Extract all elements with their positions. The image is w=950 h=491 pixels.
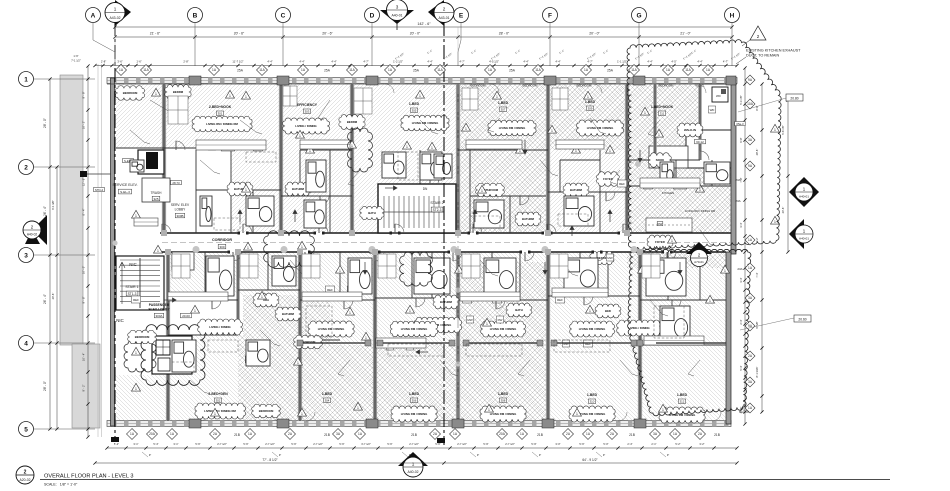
keynote triangles: [132, 88, 780, 416]
svg-text:A40-01: A40-01: [392, 14, 403, 18]
svg-text:21B: 21B: [234, 433, 240, 437]
svg-text:9'-5/8": 9'-5/8": [755, 321, 759, 328]
svg-text:4'-4": 4'-4": [647, 60, 652, 64]
svg-text:BEDROOM: BEDROOM: [123, 91, 138, 95]
detail marker 2/A70-01: [686, 242, 712, 267]
bedroom label 311: [471, 84, 706, 88]
svg-text:1: 1: [299, 134, 301, 138]
svg-text:REF: REF: [619, 182, 625, 186]
svg-text:142' - 6": 142' - 6": [417, 22, 431, 26]
svg-text:BATHRM: BATHRM: [282, 312, 295, 316]
svg-text:1: 1: [575, 149, 577, 153]
left leader small marks: [60, 167, 95, 343]
svg-text:LIVING RM / DINING: LIVING RM / DINING: [499, 126, 526, 130]
svg-text:25A: 25A: [607, 69, 614, 73]
room label 1-BED+NOOK 311: [651, 105, 674, 116]
svg-text:2: 2: [24, 470, 27, 476]
svg-text:3'-1": 3'-1": [173, 442, 178, 446]
svg-text:1: 1: [488, 408, 490, 412]
svg-text:A43-01: A43-01: [439, 16, 450, 20]
svg-text:10' - 0": 10' - 0": [82, 266, 86, 274]
svg-text:A20-02: A20-02: [20, 478, 31, 482]
svg-text:05a-3: 05a-3: [736, 122, 744, 126]
grid bubble E: [454, 8, 469, 67]
svg-text:11A: 11A: [535, 68, 541, 72]
svg-text:LIVING / DINING: LIVING / DINING: [295, 124, 316, 128]
svg-text:2'-7 1/2": 2'-7 1/2": [217, 442, 227, 446]
svg-text:300: 300: [219, 245, 224, 249]
svg-text:1'-1 1/2": 1'-1 1/2": [617, 60, 627, 64]
grid bubble G: [632, 8, 647, 67]
svg-text:ST1-3: ST1-3: [128, 292, 137, 296]
svg-text:H: H: [730, 13, 735, 20]
svg-text:60.12: 60.12: [696, 140, 704, 144]
drawing title text: [40, 474, 890, 487]
svg-text:BEDROOM: BEDROOM: [135, 335, 150, 339]
svg-text:1-BED+NOOK: 1-BED+NOOK: [651, 105, 674, 109]
svg-text:1: 1: [699, 188, 701, 192]
elec room: [172, 252, 194, 270]
cloud around passenger elevators: [141, 325, 205, 386]
svg-text:BEDRM: BEDRM: [347, 120, 358, 124]
svg-text:1: 1: [229, 94, 231, 98]
bath fixtures: [130, 152, 730, 372]
svg-text:A40-01: A40-01: [799, 237, 809, 241]
svg-text:LIVING / DINING: LIVING / DINING: [209, 325, 230, 329]
svg-text:REF: REF: [133, 298, 139, 302]
svg-text:1-BED: 1-BED: [322, 392, 333, 396]
svg-text:D: D: [370, 13, 375, 20]
svg-text:20.80: 20.80: [790, 96, 798, 100]
svg-text:A40-01: A40-01: [799, 195, 809, 199]
window door arcs at top wall: [176, 84, 721, 421]
svg-text:7'-4": 7'-4": [755, 272, 759, 277]
svg-text:2: 2: [24, 165, 28, 172]
svg-text:28' - 0": 28' - 0": [499, 32, 510, 36]
svg-text:LIVING RM / DINING: LIVING RM / DINING: [490, 327, 517, 331]
corridor label: [212, 238, 232, 249]
svg-text:W.D CL: W.D CL: [695, 84, 705, 88]
elevation tag 60.12: [695, 122, 746, 144]
svg-text:1: 1: [297, 361, 299, 365]
svg-text:21' - 0": 21' - 0": [680, 32, 691, 36]
room label EFFICIENCY 303: [297, 103, 318, 114]
svg-text:3'-6": 3'-6": [117, 60, 122, 64]
svg-text:10' - 4": 10' - 4": [82, 353, 86, 361]
svg-text:BEDROOM: BEDROOM: [259, 409, 274, 413]
svg-text:1: 1: [519, 149, 521, 153]
svg-text:9' - 2": 9' - 2": [82, 385, 86, 392]
svg-text:300A: 300A: [155, 314, 162, 318]
overall dimension 142-6: [113, 22, 733, 29]
svg-text:5: 5: [24, 427, 28, 434]
grid bubble C: [276, 8, 291, 67]
svg-text:1: 1: [24, 77, 28, 84]
svg-text:BATHRM: BATHRM: [522, 217, 535, 221]
svg-text:BEDROOM: BEDROOM: [659, 84, 675, 88]
svg-text:1: 1: [247, 246, 249, 250]
elev lobby boxes: [94, 158, 182, 192]
svg-text:5'-6": 5'-6": [243, 442, 248, 446]
section marker 3/A40-01 top: [380, 0, 414, 30]
svg-text:1: 1: [551, 129, 553, 133]
svg-text:26' - 4": 26' - 4": [43, 206, 47, 216]
svg-text:4'-4": 4'-4": [267, 60, 272, 64]
svg-text:MW: MW: [467, 318, 472, 322]
svg-text:A40-02: A40-02: [408, 470, 419, 474]
section line 1/A43-02 (x=115): [111, 22, 119, 442]
svg-text:1: 1: [301, 412, 303, 416]
svg-text:28' - 0": 28' - 0": [43, 381, 47, 391]
svg-text:2-BED+NOOK: 2-BED+NOOK: [209, 105, 232, 109]
svg-text:DW: DW: [498, 318, 503, 322]
grid bubble 2: [19, 160, 96, 175]
bottom overall dimension line: [93, 458, 738, 465]
door swing arcs: [162, 141, 709, 345]
svg-text:9' - 9": 9' - 9": [82, 92, 86, 99]
grid bubble 4: [19, 336, 96, 351]
svg-text:23A: 23A: [735, 178, 740, 182]
svg-text:4'-4": 4'-4": [427, 60, 432, 64]
svg-text:LIVING / DINING: LIVING / DINING: [628, 326, 649, 330]
svg-text:1: 1: [309, 149, 311, 153]
svg-text:3'-0": 3'-0": [555, 442, 560, 446]
svg-text:3'-4": 3'-4": [739, 222, 743, 227]
room label 1-BED 304: [322, 392, 333, 403]
svg-text:3'-1": 3'-1": [133, 442, 138, 446]
svg-text:2'-8": 2'-8": [101, 60, 106, 64]
svg-text:2'-4": 2'-4": [627, 442, 632, 446]
right dimension lines: [739, 66, 790, 425]
svg-text:REF: REF: [327, 288, 333, 292]
svg-text:1: 1: [194, 309, 196, 313]
svg-text:9": 9": [539, 453, 541, 457]
svg-text:BATHRM: BATHRM: [570, 188, 583, 192]
svg-text:CORRIDOR: CORRIDOR: [212, 238, 232, 242]
svg-text:LIVING RM / DINING: LIVING RM / DINING: [587, 126, 614, 130]
svg-text:5'-6": 5'-6": [579, 442, 584, 446]
kitchen label 311: [662, 191, 716, 213]
svg-text:20' - 0": 20' - 0": [410, 32, 421, 36]
svg-text:64' - 9 1/2": 64' - 9 1/2": [582, 458, 597, 462]
revision delta 2: [742, 26, 766, 46]
svg-text:9": 9": [279, 453, 281, 457]
svg-text:LIVING RM / DINING RM: LIVING RM / DINING RM: [206, 122, 238, 126]
svg-text:1: 1: [135, 351, 137, 355]
svg-text:1: 1: [671, 239, 673, 243]
svg-text:NOOK: NOOK: [656, 158, 664, 162]
svg-text:BEDROOM: BEDROOM: [471, 84, 487, 88]
unit 311 bath/closet white rooms: [649, 84, 733, 168]
svg-text:1-BED: 1-BED: [409, 102, 420, 106]
svg-text:4: 4: [24, 341, 28, 348]
svg-text:1-BED: 1-BED: [587, 393, 598, 397]
svg-text:26' - 4": 26' - 4": [43, 294, 47, 304]
svg-text:21B: 21B: [537, 433, 543, 437]
bottom detail dimension string: [105, 442, 738, 457]
svg-text:DW: DW: [658, 222, 663, 226]
svg-text:325: 325: [153, 197, 158, 201]
demising walls upper units: [164, 84, 700, 233]
svg-text:2: 2: [443, 7, 446, 12]
grid bubble B: [188, 8, 203, 67]
svg-text:BED: BED: [605, 309, 611, 313]
svg-text:2'-7 1/2": 2'-7 1/2": [457, 442, 467, 446]
svg-text:ELEV LOBBY: ELEV LOBBY: [148, 308, 170, 312]
svg-text:25A: 25A: [413, 69, 420, 73]
svg-text:20'-6": 20'-6": [781, 207, 785, 214]
svg-text:28' - 0": 28' - 0": [43, 118, 47, 128]
grid dimension line top: [113, 27, 733, 66]
svg-text:11A: 11A: [143, 68, 149, 72]
svg-text:1: 1: [774, 220, 776, 224]
svg-text:1: 1: [419, 94, 421, 98]
svg-text:4'-2": 4'-2": [755, 237, 759, 242]
svg-text:5'-6": 5'-6": [195, 442, 200, 446]
svg-text:LIVING RM / DINING: LIVING RM / DINING: [401, 412, 428, 416]
svg-text:1: 1: [114, 7, 117, 12]
svg-text:21B: 21B: [411, 433, 417, 437]
svg-text:1-BED: 1-BED: [585, 100, 596, 104]
svg-text:4'-7": 4'-7": [459, 60, 464, 64]
svg-text:BATH: BATH: [515, 308, 523, 312]
svg-text:C: C: [281, 13, 286, 20]
big revision cloud (lower right): [628, 249, 751, 415]
section marker 1/A40-01 right lower: [789, 219, 813, 249]
svg-text:BATHRM: BATHRM: [292, 187, 305, 191]
svg-text:2'-4": 2'-4": [739, 319, 743, 324]
svg-text:9": 9": [477, 453, 479, 457]
section marker 2/A40-02 left: [23, 215, 47, 245]
svg-text:BATH: BATH: [368, 211, 376, 215]
svg-text:5'-6": 5'-6": [435, 442, 440, 446]
svg-text:1'-6": 1'-6": [136, 60, 141, 64]
svg-text:4'-10": 4'-10": [739, 407, 743, 414]
svg-text:EXISTING KITCHEN EXHAUST: EXISTING KITCHEN EXHAUST: [746, 49, 801, 53]
svg-text:LIVING RM / DINING: LIVING RM / DINING: [318, 327, 345, 331]
stair 2 white room: [378, 184, 456, 233]
trash room: [142, 178, 170, 202]
svg-text:1: 1: [724, 269, 726, 273]
annotation leaders and misc linework: [130, 86, 716, 394]
flow arrows: [164, 140, 682, 354]
stair 1 treads: [116, 256, 164, 310]
svg-text:5'-9": 5'-9": [483, 442, 488, 446]
grid bubble 1: [19, 72, 96, 87]
svg-text:5'-6": 5'-6": [339, 442, 344, 446]
svg-text:LIVING RM / DINING: LIVING RM / DINING: [412, 121, 439, 125]
corridor 300 (white): [160, 233, 733, 252]
svg-text:3'-4": 3'-4": [739, 277, 743, 282]
svg-text:20.00: 20.00: [182, 314, 190, 318]
svg-text:DN: DN: [423, 187, 428, 191]
svg-text:303: 303: [305, 110, 310, 114]
svg-text:4'-7": 4'-7": [363, 60, 368, 64]
svg-text:4'-4": 4'-4": [555, 60, 560, 64]
svg-text:2'-7 1/2": 2'-7 1/2": [313, 442, 323, 446]
svg-text:23A: 23A: [737, 267, 742, 271]
svg-text:1: 1: [662, 408, 664, 412]
svg-text:9": 9": [667, 453, 669, 457]
hatched floor field: lower units: [113, 252, 729, 422]
svg-text:300B: 300B: [176, 214, 183, 218]
grid bubble 5: [19, 422, 96, 437]
left dimension line (grid): [43, 77, 52, 430]
svg-text:1: 1: [339, 269, 341, 273]
exterior wall: bottom (with window band and piers): [107, 421, 731, 427]
svg-text:20' - 6": 20' - 6": [322, 32, 333, 36]
appliance tags: [131, 106, 715, 363]
svg-text:STD-2: STD-2: [95, 188, 104, 192]
svg-text:4'-4": 4'-4": [299, 60, 304, 64]
svg-text:DUCT, TO REMAIN: DUCT, TO REMAIN: [746, 54, 779, 58]
section marker 1/A40-01 right upper: [789, 177, 819, 207]
grid bubble H: [725, 8, 740, 67]
svg-text:1: 1: [431, 146, 433, 150]
svg-text:LOBBY: LOBBY: [175, 208, 187, 212]
grid bubble 3: [19, 248, 96, 263]
svg-text:1: 1: [412, 462, 415, 467]
svg-text:4'-4": 4'-4": [331, 60, 336, 64]
svg-text:BEDROOM: BEDROOM: [577, 84, 593, 88]
svg-text:309: 309: [588, 107, 593, 111]
drawing title bubble 2/A20-02: [16, 466, 34, 484]
svg-text:11A: 11A: [437, 68, 443, 72]
cloud at service stair: [124, 340, 156, 372]
svg-text:4'-4": 4'-4": [697, 60, 702, 64]
svg-text:77' - 8 1/2": 77' - 8 1/2": [262, 458, 277, 462]
svg-text:4'-5 1/2": 4'-5 1/2": [489, 60, 499, 64]
svg-text:5'-4": 5'-4": [153, 442, 158, 446]
svg-text:WD: WD: [710, 108, 715, 112]
svg-text:LIVING RM / DINING: LIVING RM / DINING: [579, 412, 606, 416]
svg-text:1: 1: [135, 387, 137, 391]
svg-text:SERVICE ELEV.: SERVICE ELEV.: [112, 183, 137, 187]
keynote tag row top: [116, 65, 714, 76]
svg-text:EFFICIENCY: EFFICIENCY: [297, 103, 318, 107]
svg-text:LIVING RM / DINING: LIVING RM / DINING: [401, 327, 428, 331]
demising walls lower units: [168, 252, 640, 421]
kitchen/bath partitions upper units: [116, 148, 731, 233]
svg-text:21' - 6": 21' - 6": [150, 32, 161, 36]
svg-text:1: 1: [589, 309, 591, 313]
hatched floor field: upper units: [113, 84, 733, 233]
svg-text:11A: 11A: [259, 68, 265, 72]
svg-text:1: 1: [658, 133, 660, 137]
svg-text:1: 1: [576, 412, 578, 416]
svg-text:25A: 25A: [324, 69, 331, 73]
grid columns on exterior walls: [189, 76, 736, 428]
svg-text:3'-7 1/2": 3'-7 1/2": [361, 442, 371, 446]
svg-text:5'-0": 5'-0": [603, 442, 608, 446]
svg-text:311: 311: [660, 112, 665, 116]
svg-text:1: 1: [709, 299, 711, 303]
section marker 1/A43-02 top: [105, 0, 131, 26]
svg-text:5'-6": 5'-6": [291, 442, 296, 446]
big revision cloud (upper right): [627, 40, 781, 250]
svg-text:2'-1": 2'-1": [651, 442, 656, 446]
detail dimension string top: [93, 49, 741, 67]
grid line E dashed: [457, 84, 459, 420]
living/dining label clouds: [115, 85, 705, 424]
serv elev lobby label: [171, 203, 190, 218]
svg-text:28.73: 28.73: [172, 181, 180, 185]
left dim line x57: [51, 165, 59, 430]
svg-text:25A: 25A: [509, 69, 516, 73]
svg-text:ST2-3: ST2-3: [433, 208, 442, 212]
svg-text:10' - 2": 10' - 2": [82, 121, 86, 129]
room label 1-BED 312: [677, 393, 688, 404]
corner dims top-left: [71, 54, 81, 63]
svg-text:2'-7 1/2": 2'-7 1/2": [265, 442, 275, 446]
room label 1-BED 306: [409, 392, 420, 403]
svg-text:A43-02: A43-02: [110, 16, 121, 20]
passenger elevators: [152, 336, 192, 374]
elevation tag 20.80: [738, 94, 803, 112]
svg-text:1: 1: [245, 188, 247, 192]
room label 2-BED+NOOK 301: [209, 105, 232, 116]
svg-text:REF: REF: [557, 298, 563, 302]
svg-text:7'-1 1/2": 7'-1 1/2": [71, 59, 81, 63]
svg-text:2'-7 1/2": 2'-7 1/2": [409, 442, 419, 446]
svg-text:LIVING RM / DINING: LIVING RM / DINING: [579, 327, 606, 331]
left dimension line (detail): [82, 64, 90, 438]
room label 1-BED 305: [409, 102, 420, 113]
svg-text:F: F: [548, 13, 552, 20]
small cloud unit306: [400, 252, 433, 286]
svg-text:29'-6": 29'-6": [51, 293, 55, 300]
svg-text:5'-2": 5'-2": [675, 442, 680, 446]
stair 1 label: [125, 285, 138, 296]
svg-text:9": 9": [149, 453, 151, 457]
svg-text:1: 1: [465, 127, 467, 131]
svg-text:LIVING RM / DINING RM: LIVING RM / DINING RM: [685, 209, 716, 213]
svg-text:B: B: [193, 13, 198, 20]
svg-text:PASSENGER: PASSENGER: [149, 303, 170, 307]
svg-text:1: 1: [481, 189, 483, 193]
svg-text:11A: 11A: [631, 68, 637, 72]
svg-text:1: 1: [609, 149, 611, 153]
svg-text:5'-9": 5'-9": [531, 442, 536, 446]
svg-text:9": 9": [409, 453, 411, 457]
svg-text:2'-7 1/2": 2'-7 1/2": [505, 442, 515, 446]
svg-text:21B: 21B: [714, 433, 720, 437]
svg-text:1: 1: [774, 128, 776, 132]
service elev label: [112, 183, 137, 194]
svg-text:1: 1: [644, 111, 646, 115]
svg-text:1: 1: [496, 95, 498, 99]
passenger elev lobby label: [148, 303, 191, 318]
svg-text:A70-01: A70-01: [694, 260, 704, 264]
exterior wall: right lower: [726, 252, 731, 424]
svg-text:1: 1: [409, 309, 411, 313]
svg-text:1-BED: 1-BED: [498, 101, 509, 105]
svg-text:5'-2": 5'-2": [114, 442, 119, 446]
svg-text:10A: 10A: [747, 102, 754, 106]
svg-text:LIVING RM / DINING RM: LIVING RM / DINING RM: [204, 409, 236, 413]
svg-text:1: 1: [155, 92, 157, 96]
svg-text:E: E: [459, 13, 464, 20]
unit face line along top wall: [107, 83, 737, 85]
grid line E nodes: [112, 161, 641, 367]
svg-text:A: A: [91, 13, 96, 20]
elevation tag 20.60: [740, 315, 811, 330]
svg-text:302: 302: [216, 399, 221, 403]
svg-text:3'-2": 3'-2": [699, 442, 704, 446]
svg-text:23A: 23A: [735, 199, 740, 203]
svg-text:1-BED: 1-BED: [677, 393, 688, 397]
room label 1-BED 310: [587, 393, 598, 404]
